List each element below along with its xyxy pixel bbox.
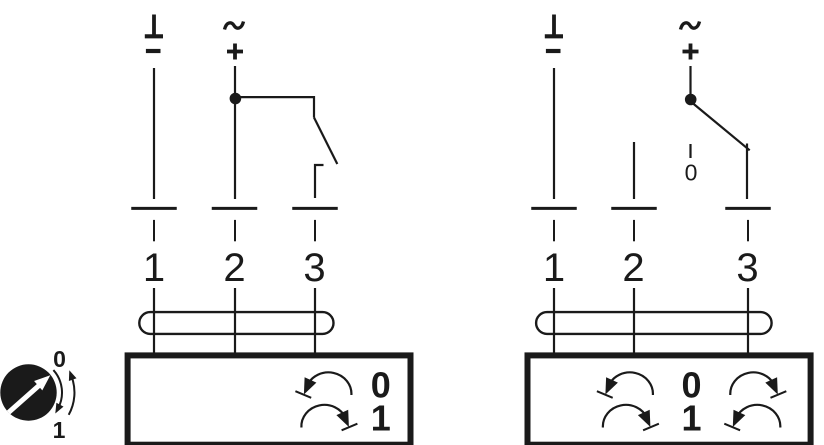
actuator box (right)	[528, 355, 811, 444]
svg-text:2: 2	[223, 246, 245, 290]
wire node to switch pivot (left)	[235, 97, 314, 117]
rotation arrow CCW row 0 (right box left pair)	[597, 372, 653, 397]
wire 3 to actuator (right)	[747, 288, 749, 353]
switch blade (right, closed to 3)	[693, 103, 750, 150]
wire 1 to actuator (right)	[553, 288, 555, 353]
terminal stub 3 (left)	[314, 220, 316, 241]
wire terminal 2 (left)	[234, 66, 236, 199]
svg-text:1: 1	[371, 398, 391, 439]
terminal stub 3 (right)	[747, 220, 749, 241]
cable capsule (left)	[139, 312, 333, 334]
AC symbol ~ (right)	[681, 22, 700, 30]
terminal bar 1 (left)	[131, 207, 177, 210]
knob icon	[0, 364, 56, 420]
terminal bar 2 (left)	[212, 207, 258, 210]
svg-text:1: 1	[681, 398, 701, 439]
terminal bar 3 (left)	[292, 207, 338, 210]
wire 2 to actuator (right)	[633, 288, 635, 353]
knob arc to 0 (outer)	[69, 370, 77, 415]
svg-text:1: 1	[143, 246, 165, 290]
wire 1 to actuator (left)	[153, 288, 155, 353]
plus symbol + (right)	[683, 44, 699, 60]
svg-text:3: 3	[303, 246, 325, 290]
terminal stub 2 (right)	[633, 220, 635, 241]
fixed contact terminal 3 (left)	[315, 165, 324, 198]
svg-text:0: 0	[53, 346, 66, 372]
svg-text:1: 1	[543, 246, 565, 290]
junction node (left)	[230, 93, 242, 105]
wire 2 to actuator (left)	[234, 288, 236, 353]
rotation arrow CW row 1 (left box)	[301, 405, 357, 430]
terminal stub 1 (left)	[153, 220, 155, 241]
rotation arrow CCW row 0 (left box)	[295, 372, 351, 397]
svg-text:2: 2	[622, 246, 644, 290]
wire from plus to node (right)	[689, 66, 691, 94]
wire terminal 1 (left)	[153, 68, 155, 199]
wire 3 to actuator (left)	[314, 288, 316, 353]
terminal bar 3 (right)	[725, 207, 771, 210]
wire terminal 3 (right)	[746, 144, 748, 200]
ground symbol (left diagram, terminal 1)	[145, 15, 163, 52]
rotation arrow CCW row 1 (right box right pair)	[724, 405, 780, 430]
terminal bar 1 (right)	[531, 207, 577, 210]
AC symbol ~ (left)	[225, 22, 244, 30]
svg-text:3: 3	[736, 246, 758, 290]
plus symbol + (left)	[227, 44, 243, 60]
open contact tick 0 (right)	[689, 144, 691, 158]
terminal bar 2 (right)	[611, 207, 657, 210]
wire terminal 2 (right)	[633, 142, 635, 199]
wire terminal 1 (right)	[553, 68, 555, 199]
terminal stub 1 (right)	[553, 220, 555, 241]
rotation arrow CW row 0 (right box right pair)	[730, 372, 786, 397]
ground symbol (right diagram, terminal 1)	[545, 15, 563, 52]
knob arc to 1 (inner)	[53, 370, 63, 413]
svg-text:1: 1	[53, 417, 66, 443]
svg-text:0: 0	[685, 160, 698, 186]
actuator box (left)	[128, 355, 411, 444]
junction node (right)	[685, 94, 697, 106]
switch blade (left, open)	[314, 118, 337, 165]
knob pointer	[9, 375, 51, 412]
rotation arrow CW row 1 (right box left pair)	[603, 405, 659, 430]
terminal stub 2 (left)	[234, 220, 236, 241]
cable capsule (right)	[536, 312, 772, 334]
